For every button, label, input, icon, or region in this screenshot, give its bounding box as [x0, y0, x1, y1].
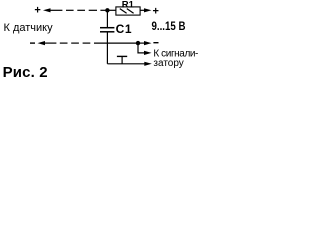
- wire minus rail dashed section: [60, 42, 68, 44]
- svg-text:9...15 В: 9...15 В: [152, 20, 186, 33]
- capacitor C1: [100, 22, 132, 36]
- wire minus rail to -supply arrow: [138, 42, 146, 44]
- wire common rail to signaler: [107, 63, 146, 65]
- svg-text:К датчику: К датчику: [4, 22, 54, 34]
- svg-text:C1: C1: [116, 22, 133, 36]
- svg-text:Рис. 2: Рис. 2: [3, 64, 48, 81]
- ground common wire symbol (T): [117, 56, 127, 63]
- node - terminal label (bottom right minus): [153, 42, 158, 44]
- wire C1 upper lead: [106, 10, 108, 27]
- resistor R1: [116, 0, 140, 15]
- svg-text:затору: затору: [153, 58, 183, 69]
- wire C1 lower lead down to common wire: [106, 32, 108, 64]
- node junction dot minus rail: [136, 41, 140, 45]
- svg-text:R1: R1: [122, 0, 135, 10]
- wire minus rail left arrow to sensor: [38, 41, 46, 45]
- wire top rail dashed section: [66, 9, 74, 11]
- node junction dot top rail / C1: [105, 8, 109, 12]
- wire branch from junction down to signaler: [138, 43, 146, 53]
- wire top rail left arrow to sensor: [43, 8, 51, 12]
- wire top rail solid to resistor: [100, 9, 116, 11]
- svg-text:+: +: [34, 4, 40, 16]
- wire minus rail solid crossing C1 lead (no junction): [94, 42, 138, 44]
- wire top rail to +supply arrow: [140, 9, 146, 11]
- node - terminal label (bottom left minus): [30, 42, 35, 44]
- svg-text:+: +: [153, 6, 159, 18]
